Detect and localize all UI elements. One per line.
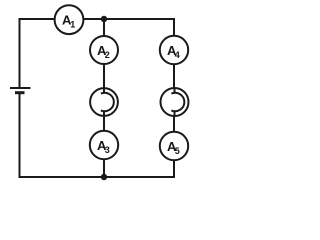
wire top rail	[19, 18, 175, 20]
ammeter A1	[55, 5, 84, 34]
wire right branch	[173, 18, 175, 178]
svg-text:1: 1	[70, 20, 75, 30]
ammeter A4	[160, 36, 188, 64]
svg-text:3: 3	[105, 145, 110, 155]
wire middle branch	[103, 19, 105, 177]
ammeter A3	[90, 131, 118, 159]
wire bottom rail	[19, 176, 176, 178]
wire left rail upper	[19, 18, 21, 88]
ammeter A2	[90, 36, 118, 64]
ammeter A5	[160, 132, 188, 160]
node junction top	[101, 16, 107, 22]
svg-text:4: 4	[175, 50, 180, 60]
lamp L1	[90, 88, 118, 116]
svg-text:2: 2	[105, 50, 110, 60]
node junction bottom	[101, 174, 107, 180]
lamp L2	[161, 88, 189, 116]
battery B1	[10, 88, 31, 93]
wire left rail lower	[19, 93, 21, 178]
svg-text:5: 5	[175, 146, 180, 156]
